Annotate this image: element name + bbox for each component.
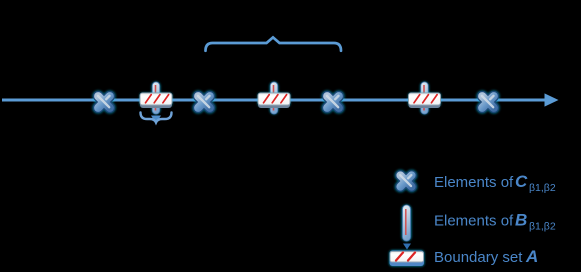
svg-text:Elements of: Elements of bbox=[434, 174, 514, 191]
legend symbol: boundary rectangle bbox=[389, 250, 425, 267]
element of C marker x4 bbox=[482, 96, 494, 108]
svg-text:Elements of: Elements of bbox=[434, 213, 514, 230]
legend symbol: X cross bbox=[400, 175, 412, 187]
down arrowhead below gate A1 bbox=[151, 116, 161, 124]
legend text row 3: Boundary set A bbox=[434, 247, 538, 266]
overbrace above interval bbox=[206, 37, 342, 50]
element of C marker x1 bbox=[98, 96, 110, 108]
number line axis bbox=[2, 93, 559, 106]
legend symbol: vertical capsule bbox=[402, 205, 412, 250]
element of C marker x2 bbox=[198, 96, 210, 108]
underbrace below gate A1 bbox=[141, 113, 172, 123]
svg-text:β1,β2: β1,β2 bbox=[529, 221, 556, 233]
svg-text:C: C bbox=[515, 172, 528, 191]
boundary gate A1 (with underbrace) bbox=[140, 82, 173, 124]
legend text row 1: Elements of C_b1,b2 bbox=[434, 172, 556, 194]
svg-text:β1,β2: β1,β2 bbox=[529, 182, 556, 194]
boundary gate A3 bbox=[408, 82, 441, 115]
axis arrowhead bbox=[545, 93, 559, 106]
legend text row 2: Elements of B_b1,b2 bbox=[434, 211, 556, 233]
small down arrow under capsule bbox=[403, 244, 411, 250]
svg-text:A: A bbox=[525, 247, 538, 266]
svg-text:B: B bbox=[515, 211, 527, 230]
boundary gate A2 bbox=[258, 82, 291, 115]
element of C marker x3 bbox=[327, 96, 339, 108]
svg-text:Boundary set: Boundary set bbox=[434, 249, 523, 266]
